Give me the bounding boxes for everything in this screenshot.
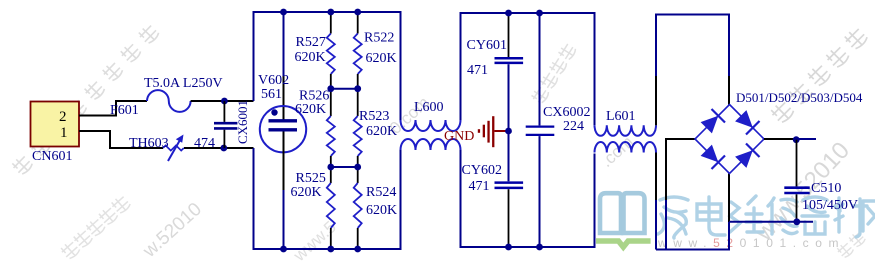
fuse F601 [147, 90, 191, 112]
capacitor CX6002 plates [526, 125, 555, 127]
junction chain top [327, 9, 334, 16]
wire L601 bottom down [655, 153, 657, 201]
wire bridge right vertex [764, 138, 797, 140]
inductor L601 top winding [595, 125, 656, 136]
diode D504 (bottom-right edge) [735, 150, 753, 168]
diode D503 (bottom-left edge) [701, 145, 719, 163]
wire net-A top rail [254, 12, 401, 120]
wire C510 top stub [797, 138, 817, 140]
resistor R522 top lead [357, 12, 359, 34]
svg-text:w.52010: w.52010 [139, 199, 206, 263]
wire C510 bottom rail [729, 221, 813, 223]
svg-text:L601: L601 [606, 109, 636, 124]
wire link2 between chains [331, 166, 358, 168]
junction chain link2 [327, 164, 334, 171]
resistor R526 bottom lead [330, 156, 332, 167]
svg-text:D501/D502/D503/D504: D501/D502/D503/D504 [736, 90, 863, 105]
ground symbol bar2 [483, 125, 485, 138]
wire net-B bottom rail [254, 148, 401, 249]
wire block2 left edge top [461, 13, 595, 125]
svg-text:105/450V: 105/450V [802, 198, 858, 213]
resistor R526 [327, 116, 335, 156]
wire bridge bottom lead [728, 174, 730, 223]
svg-text:620K: 620K [366, 51, 397, 66]
ground symbol bar3 [487, 121, 489, 143]
junction chain bottom [327, 246, 334, 253]
ground symbol bar1 [478, 129, 480, 133]
svg-text:T5.0A L250V: T5.0A L250V [144, 76, 223, 91]
junction C510 top [793, 136, 800, 143]
bridge diamond outline [695, 105, 764, 174]
wire loop rail [656, 15, 729, 77]
junction varistor bottom [280, 246, 287, 253]
resistor R523 top lead [357, 89, 359, 116]
varistor V602 plate1 [269, 119, 298, 122]
wire pin1 from CN601 [79, 131, 163, 148]
svg-text:V602: V602 [258, 73, 289, 88]
inductor L601 bottom winding [595, 142, 656, 153]
wire L601 top to loop rail [655, 76, 657, 125]
svg-text:471: 471 [469, 179, 490, 194]
capacitor CX6001 plates [214, 122, 237, 125]
svg-text:1: 1 [60, 125, 68, 141]
capacitor CX6002 top lead [539, 13, 541, 125]
junction chain top [354, 9, 361, 16]
svg-text:CX6001: CX6001 [235, 100, 250, 144]
node B junction [220, 145, 227, 152]
resistor R522 [354, 34, 362, 75]
resistor R525 top lead [330, 167, 332, 183]
varistor V602 circle [260, 106, 306, 152]
resistor R527 [327, 34, 335, 75]
thermistor TH603 body [163, 145, 184, 150]
svg-text:620K: 620K [366, 203, 397, 218]
svg-text:620K: 620K [291, 185, 322, 200]
capacitor CX6002 bottom lead [539, 136, 541, 247]
svg-text:R522: R522 [364, 31, 394, 46]
resistor R524 [354, 183, 362, 228]
capacitor C510 top lead [796, 140, 798, 187]
junction varistor top [280, 9, 287, 16]
svg-text:620K: 620K [366, 124, 397, 139]
varistor V602 plate2 [269, 128, 298, 131]
inductor L600 bottom winding [401, 139, 461, 150]
capacitor CX6001 bottom lead [223, 130, 225, 148]
capacitor CY601 top lead [508, 13, 510, 57]
junction chain link1 left [327, 85, 334, 92]
capacitor C510 bottom lead [796, 194, 798, 221]
capacitor CY602 plates [495, 181, 524, 184]
capacitor CY601 bottom lead [508, 64, 510, 131]
resistor R527 top lead [330, 12, 332, 34]
svg-text:R527: R527 [296, 35, 326, 50]
wire fuse to node A [191, 100, 254, 102]
varistor V602 dot [271, 109, 277, 115]
diode D502 (top-right edge) [735, 110, 753, 128]
svg-text:CN601: CN601 [32, 149, 72, 164]
wire bottom rail to bridge [656, 222, 729, 250]
junction CY bottom [505, 244, 512, 251]
resistor R523 [354, 116, 362, 156]
resistor R524 top lead [357, 167, 359, 183]
svg-text:620K: 620K [295, 102, 326, 117]
svg-text:R524: R524 [366, 185, 396, 200]
wire bridge left vertex [666, 139, 695, 200]
resistor R523 bottom lead [357, 156, 359, 167]
junction CX6002 top [536, 10, 543, 17]
svg-text:GND: GND [444, 129, 474, 144]
wire bridge left vertex lower [665, 200, 667, 250]
svg-text:CY602: CY602 [462, 163, 502, 178]
resistor R525 [327, 183, 335, 228]
wire varistor branch upper black [283, 76, 285, 120]
svg-text:C510: C510 [811, 181, 841, 196]
inductor L600 top winding [401, 120, 461, 131]
wire link1 between chains [331, 88, 358, 90]
svg-text:TH603: TH603 [129, 136, 169, 151]
ground symbol stub [494, 130, 506, 132]
capacitor CX6001 top lead [223, 101, 225, 122]
resistor R524 bottom lead [357, 228, 359, 249]
junction chain link2 [354, 164, 361, 171]
svg-text:CX6002: CX6002 [543, 105, 590, 120]
wire block2 left edge bottom [461, 150, 595, 247]
svg-text:471: 471 [467, 63, 488, 78]
wire thermistor to node B [184, 147, 254, 149]
connector CN601 body [31, 102, 80, 147]
svg-text:561: 561 [261, 87, 282, 102]
svg-text:L600: L600 [414, 100, 444, 115]
capacitor CY602 bottom lead [508, 189, 510, 247]
junction CY top [505, 10, 512, 17]
junction GND node [505, 128, 512, 135]
svg-text:www.5: www.5 [289, 217, 340, 265]
svg-text:224: 224 [563, 119, 584, 134]
capacitor CY601 plates [495, 57, 524, 60]
svg-text:F601: F601 [110, 103, 139, 118]
svg-text:www.520101.com: www.520101.com [657, 236, 845, 250]
capacitor CY602 top lead [508, 131, 510, 181]
wire varistor branch lower [283, 190, 285, 249]
thermistor TH603 arrow [168, 135, 184, 162]
wire pin2 from CN601 [79, 101, 147, 116]
svg-text:620K: 620K [295, 50, 326, 65]
svg-text:2: 2 [59, 109, 67, 125]
wire varistor branch upper [283, 12, 285, 76]
junction chain link1 left [354, 85, 361, 92]
ground symbol bar4 [492, 116, 494, 147]
node A junction [221, 98, 228, 105]
resistor R522 bottom lead [357, 74, 359, 89]
svg-text:R525: R525 [296, 171, 326, 186]
wire L601 bottom down lower [655, 200, 657, 250]
junction C510 bottom [793, 218, 800, 225]
svg-text:R523: R523 [359, 109, 389, 124]
diode D501 (top-left edge) [701, 116, 719, 134]
svg-text:CY601: CY601 [467, 38, 507, 53]
wire varistor branch lower black [283, 132, 285, 191]
resistor R526 top lead [330, 89, 332, 116]
resistor R525 bottom lead [330, 228, 332, 249]
junction CX6002 bottom [536, 244, 543, 251]
junction chain bottom [354, 246, 361, 253]
resistor R527 bottom lead [330, 74, 332, 89]
wire loop to bridge top [728, 76, 730, 105]
capacitor C510 plates [784, 186, 809, 189]
